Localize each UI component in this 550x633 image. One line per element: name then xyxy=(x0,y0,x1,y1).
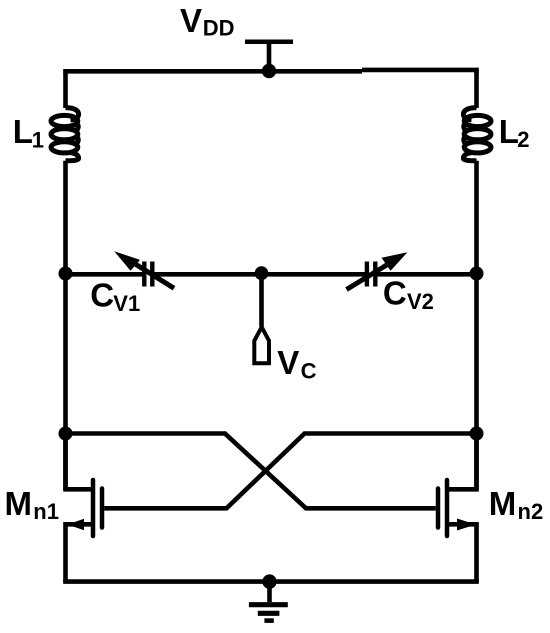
node VC junction dot xyxy=(255,266,269,280)
label VDD xyxy=(180,2,235,41)
wire left rail (L1 to drain bend) xyxy=(63,161,68,490)
svg-text:DD: DD xyxy=(203,16,235,41)
M1 drain wire xyxy=(66,434,92,490)
svg-text:V1: V1 xyxy=(113,291,140,316)
varactor CV2 arrow xyxy=(347,252,408,289)
wire right rail (L2 to drain bend) xyxy=(474,161,479,490)
svg-text:1: 1 xyxy=(32,128,44,153)
wire left rail upper xyxy=(63,71,68,108)
inductor L1 xyxy=(51,108,79,161)
M2 source arrow xyxy=(457,519,476,531)
svg-text:n2: n2 xyxy=(518,499,544,524)
svg-text:V2: V2 xyxy=(407,289,434,314)
wire top rail left half xyxy=(66,71,363,73)
label VC xyxy=(277,344,316,384)
inductor L2 xyxy=(463,108,491,161)
transistor M_n1 xyxy=(66,434,103,583)
svg-text:L: L xyxy=(13,113,33,150)
wire right rail upper xyxy=(474,70,479,108)
label L2 xyxy=(499,113,530,152)
M2 gate bar xyxy=(436,489,441,528)
label CV1 xyxy=(90,276,140,316)
node right tank junction dot xyxy=(470,267,484,281)
node right drain junction dot xyxy=(470,427,484,441)
M2 source wire xyxy=(449,524,477,582)
supply VDD symbol xyxy=(245,42,293,72)
M1 source wire xyxy=(66,524,92,582)
label Mn2 xyxy=(489,485,543,524)
wire VC stub xyxy=(259,274,264,327)
svg-text:M: M xyxy=(489,485,517,522)
node left tank junction dot xyxy=(59,267,73,281)
wire cross-couple: right drain to M1 gate xyxy=(104,434,476,509)
node ground junction dot xyxy=(262,574,276,588)
node left drain junction dot xyxy=(59,427,73,441)
M2 drain wire xyxy=(449,434,477,490)
wire bottom rail xyxy=(63,579,479,584)
wire cross-couple: left drain to M2 gate xyxy=(66,434,436,509)
wire varactor row left segment xyxy=(66,272,145,277)
varactor CV1 arrow xyxy=(114,251,174,288)
svg-text:C: C xyxy=(383,275,407,312)
svg-text:L: L xyxy=(499,113,519,150)
wire varactor row middle segment xyxy=(152,272,367,277)
svg-text:n1: n1 xyxy=(33,499,59,524)
wire top rail right half xyxy=(362,70,477,73)
ground xyxy=(249,582,288,621)
node VDD junction dot xyxy=(262,64,276,78)
svg-text:C: C xyxy=(301,358,317,383)
transistor M_n2 xyxy=(438,434,477,583)
svg-text:V: V xyxy=(180,2,202,39)
M1 source arrow xyxy=(68,519,85,531)
svg-text:M: M xyxy=(5,485,33,522)
M1 channel bar xyxy=(91,480,96,536)
svg-text:V: V xyxy=(277,344,299,381)
M2 channel bar xyxy=(445,480,450,536)
varactor CV2 plates xyxy=(367,262,375,287)
label L1 xyxy=(13,113,44,152)
M1 gate bar xyxy=(100,489,105,528)
label Mn1 xyxy=(5,485,59,524)
terminal VC probe xyxy=(254,327,269,363)
svg-text:C: C xyxy=(90,276,114,313)
label CV2 xyxy=(383,275,434,314)
varactor CV1 plates xyxy=(144,262,152,287)
svg-text:2: 2 xyxy=(517,127,529,152)
wire varactor row right segment xyxy=(375,272,476,277)
